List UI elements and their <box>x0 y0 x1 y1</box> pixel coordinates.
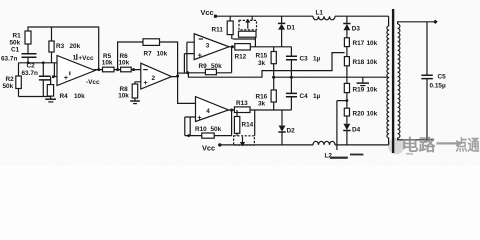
label C4 1u <box>300 93 321 100</box>
svg-text:R12: R12 <box>235 53 247 60</box>
svg-text:3k: 3k <box>258 60 266 67</box>
resistor R5 <box>103 67 115 72</box>
resistor R19 <box>344 77 349 108</box>
svg-text:R17: R17 <box>353 40 365 47</box>
svg-text:D1: D1 <box>287 25 296 32</box>
resistor R13 <box>234 107 250 113</box>
svg-text:0.15µ: 0.15µ <box>430 83 446 90</box>
svg-text:电路: 电路 <box>402 136 436 155</box>
svg-text:C1: C1 <box>11 47 20 54</box>
label C5 0.15u <box>430 74 447 90</box>
capacitor C3 <box>286 47 297 77</box>
resistor R12 <box>239 31 257 46</box>
wire R11 bottom to node A riser <box>232 35 256 39</box>
svg-text:10k: 10k <box>102 60 113 67</box>
svg-text:10k: 10k <box>367 111 378 118</box>
node op-amp 2 output <box>176 75 179 78</box>
resistor R6 <box>121 67 132 72</box>
node dot op-amp 3 output <box>231 45 234 48</box>
svg-text:+: + <box>197 113 202 122</box>
lamp arrow box top <box>239 16 257 30</box>
svg-text:10k: 10k <box>118 93 129 100</box>
label R15 3k <box>256 53 268 67</box>
ground below R8 <box>130 101 140 104</box>
svg-text:50k: 50k <box>211 126 222 133</box>
resistor R11 <box>227 16 233 34</box>
svg-text:+Vcc: +Vcc <box>78 55 94 62</box>
wire jog to op-amp 1 noninverting input <box>53 63 59 77</box>
wire op-amp 4 output node B <box>227 109 291 111</box>
node dot R19 R20 junction <box>346 99 349 102</box>
resistor R14 <box>234 110 239 136</box>
ground symbol on rail <box>357 77 369 85</box>
resistor R15 <box>271 47 276 77</box>
svg-text:1µ: 1µ <box>313 93 321 100</box>
op-amp U3 <box>194 34 229 60</box>
wire R10 loop <box>185 110 232 136</box>
resistor R20 <box>344 108 349 123</box>
wire op-amp 2 output down to op-amp 4 input <box>172 76 196 103</box>
wire R7 feedback loop <box>118 42 178 76</box>
svg-text:20k: 20k <box>70 43 81 50</box>
wire ground rail center tap <box>272 76 389 78</box>
capacitor C2 <box>39 63 51 97</box>
op-amp 1 plus sign <box>64 71 70 82</box>
inductor L1 <box>313 16 389 26</box>
wire top-left feedback rail from op-amp 1 output to R1 <box>28 27 99 70</box>
scan artifact dash right <box>350 154 363 156</box>
resistor R18 <box>344 57 349 78</box>
svg-text:D4: D4 <box>352 127 361 134</box>
watermark logo circle <box>388 138 413 155</box>
wire threshold staircase top <box>188 53 344 78</box>
label R1 50k <box>10 33 22 47</box>
svg-text:R4: R4 <box>60 93 69 100</box>
diode D2 <box>278 110 285 145</box>
svg-text:10k: 10k <box>157 50 168 57</box>
resistor R7 <box>143 39 160 46</box>
svg-text:10k: 10k <box>119 60 130 67</box>
op-amp U2 <box>141 63 172 89</box>
svg-text:C2: C2 <box>27 63 36 70</box>
ground below R4 <box>45 99 56 102</box>
diode D3 <box>343 16 350 38</box>
resistor R10 <box>202 133 214 138</box>
op-amp 4 number and plus sign <box>197 108 210 122</box>
transformer secondary winding <box>398 24 400 138</box>
svg-text:R18: R18 <box>353 59 365 66</box>
transformer primary winding <box>387 26 389 138</box>
op-amp 2 minus sign <box>143 69 148 71</box>
wire op-amp 1 output <box>94 69 142 71</box>
svg-text:2: 2 <box>152 75 156 82</box>
svg-text:10k: 10k <box>367 40 378 47</box>
svg-text:R10: R10 <box>195 126 207 133</box>
svg-text:10k: 10k <box>367 86 378 93</box>
op-amp 3 number and plus sign <box>198 39 210 60</box>
svg-text:4: 4 <box>206 108 210 115</box>
svg-text:R19: R19 <box>353 86 365 93</box>
diode D1 <box>278 16 285 47</box>
svg-text:D2: D2 <box>287 127 296 134</box>
junction dots on output wire <box>97 68 135 71</box>
svg-text:10k: 10k <box>74 93 85 100</box>
op-amp U4 <box>196 97 229 122</box>
watermark text <box>402 136 480 155</box>
svg-text:R14: R14 <box>242 121 254 128</box>
resistor R3 <box>49 27 54 63</box>
wire node B riser to lamp box <box>254 110 256 136</box>
wire op-amp 4 noninverting input <box>185 117 196 136</box>
svg-text:R20: R20 <box>353 111 365 118</box>
wire bottom supply rail <box>220 144 313 146</box>
svg-text:点通: 点通 <box>456 137 480 154</box>
node junction dots on Wien wire <box>27 61 45 64</box>
inductor L2 <box>313 138 389 145</box>
resistor R4 <box>47 77 53 99</box>
wire op-amp 3 output node A <box>228 46 291 48</box>
svg-text:R2: R2 <box>6 76 15 83</box>
node dot R9 left <box>186 71 189 74</box>
svg-text:1: 1 <box>73 55 77 62</box>
svg-text:R1: R1 <box>13 33 22 40</box>
svg-text:+: + <box>198 51 203 60</box>
resistor R2 <box>16 63 21 97</box>
capacitor C5 <box>421 22 432 140</box>
svg-text:3k: 3k <box>258 101 266 108</box>
svg-text:R13: R13 <box>236 100 248 107</box>
svg-text:D3: D3 <box>352 26 361 33</box>
wire Wien node <box>19 62 59 64</box>
wire op-amp 2 output to op-amp 3 network <box>178 72 188 74</box>
label C3 1u <box>300 56 321 63</box>
svg-text:R15: R15 <box>256 53 268 60</box>
resistor R16 <box>271 77 276 110</box>
svg-text:50k: 50k <box>211 63 222 70</box>
node dot R10 left <box>187 134 190 137</box>
svg-text:3: 3 <box>206 43 210 50</box>
label R8 10k <box>118 86 129 100</box>
resistor R9 <box>205 69 216 74</box>
svg-text:C5: C5 <box>438 74 447 81</box>
scan artifact dash left <box>330 157 348 159</box>
svg-text:50k: 50k <box>10 40 21 47</box>
resistor R1 <box>25 27 31 54</box>
node dot at R4 top <box>52 75 55 78</box>
wire top supply rail <box>216 15 314 17</box>
resistor R8 <box>132 84 138 101</box>
transformer core <box>393 9 394 153</box>
svg-text:L1: L1 <box>316 10 324 17</box>
label R20 10k <box>353 111 378 118</box>
label C2 63.7n <box>22 63 38 77</box>
svg-text:Vcc: Vcc <box>202 143 215 152</box>
label R9 50k <box>199 63 223 70</box>
svg-text:63.7n: 63.7n <box>22 70 38 77</box>
svg-text:63.7n: 63.7n <box>1 56 17 63</box>
op-amp 2 plus sign and number <box>143 75 155 87</box>
label R2 50k <box>3 76 15 90</box>
svg-text:+: + <box>64 73 69 82</box>
svg-text:Vcc: Vcc <box>201 8 214 17</box>
svg-text:R9: R9 <box>199 63 208 70</box>
svg-text:R3: R3 <box>56 43 65 50</box>
svg-text:R11: R11 <box>212 27 224 34</box>
label R4 10k <box>60 93 86 100</box>
wire op-amp 3 noninverting input drop <box>184 54 194 73</box>
capacitor C1 <box>22 54 37 63</box>
capacitor C4 <box>286 77 297 110</box>
junction dots on ground rail <box>272 76 293 79</box>
label R3 20k <box>56 43 81 50</box>
label R17 10k <box>353 40 378 47</box>
wire R9 loop <box>188 47 232 73</box>
op-amp U1 <box>57 56 95 86</box>
svg-text:1µ: 1µ <box>313 56 321 63</box>
label R6 10k <box>119 53 130 67</box>
diode D4 <box>343 124 350 145</box>
label R16 3k <box>256 93 268 107</box>
svg-text:R7: R7 <box>144 50 153 57</box>
svg-text:C3: C3 <box>300 56 309 63</box>
label R10 50k <box>195 126 222 133</box>
wire secondary bottom output <box>398 138 434 140</box>
wire bottom of R2/C2 <box>19 96 51 98</box>
wire secondary top output <box>398 22 434 24</box>
wire op-amp 2 noninverting input to R8 <box>135 82 141 84</box>
svg-text:-Vcc: -Vcc <box>86 79 100 86</box>
label C1 63.7n <box>1 47 20 63</box>
node dot Vcc feed <box>214 15 217 18</box>
node dot op-amp 4 output <box>230 109 233 112</box>
label R19 10k <box>353 86 378 93</box>
lamp arrow box bottom <box>234 136 255 146</box>
wire op-amp 3 inverting input riser <box>187 42 194 73</box>
resistor R17 <box>344 38 349 57</box>
label R7 10k <box>144 50 168 57</box>
op-amp 1 number and power labels <box>73 54 100 86</box>
svg-text:+: + <box>143 78 148 87</box>
node dot Vcc bottom feed <box>218 143 221 146</box>
svg-text:10k: 10k <box>367 59 378 66</box>
paper noise background <box>0 0 480 166</box>
resistor R12 box <box>235 44 251 50</box>
svg-text:C4: C4 <box>300 93 309 100</box>
output terminal top <box>433 20 438 24</box>
svg-text:50k: 50k <box>3 83 14 90</box>
wire threshold staircase bottom <box>337 101 347 150</box>
label R5 10k <box>102 53 113 67</box>
label R18 10k <box>353 59 378 66</box>
svg-text:R16: R16 <box>256 93 268 100</box>
